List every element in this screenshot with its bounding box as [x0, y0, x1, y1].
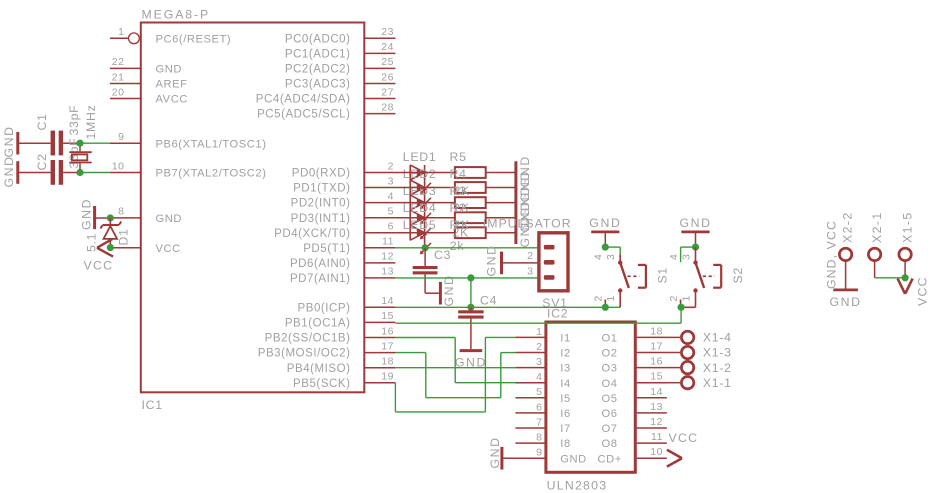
IC1 pin 2 PD0(RXD) (right)	[292, 160, 396, 179]
svg-text:10: 10	[650, 446, 663, 458]
svg-text:2K: 2K	[454, 201, 471, 215]
IC1 pin 15 PB1(OC1A) (right)	[285, 310, 396, 329]
svg-text:GND: GND	[2, 125, 16, 157]
svg-text:6: 6	[388, 221, 394, 233]
VCC label (left)	[84, 259, 114, 273]
svg-text:PB2(SS/OC1B): PB2(SS/OC1B)	[265, 333, 351, 345]
label C4	[480, 294, 497, 308]
supply VCC arrow (left)	[97, 239, 113, 257]
pad X1-5	[899, 248, 911, 279]
IC1 pin 4 PD2(INT0) (right)	[291, 190, 396, 209]
svg-text:VCC: VCC	[84, 259, 114, 273]
SV1 pin contact at 278.0	[544, 275, 555, 280]
svg-text:19: 19	[381, 371, 394, 383]
IC1 pin 5 PD3(INT1) (right)	[291, 206, 396, 225]
svg-text:ULN2803: ULN2803	[547, 479, 608, 493]
svg-text:17: 17	[650, 341, 663, 353]
svg-text:VCC: VCC	[916, 276, 930, 306]
IC2 pin 6 I6 (left)	[515, 401, 570, 420]
IC1 pin 27 PC4(ADC4/SDA) (right)	[256, 86, 396, 105]
svg-text:X2-1: X2-1	[870, 211, 884, 243]
resistor R3	[395, 197, 516, 208]
GND label (R2)	[518, 200, 532, 232]
svg-text:PD0(RXD): PD0(RXD)	[292, 168, 351, 180]
node S2 bottom junction	[678, 304, 685, 311]
svg-text:X1-3: X1-3	[703, 346, 732, 360]
svg-text:4: 4	[388, 190, 394, 202]
svg-text:GND: GND	[2, 155, 16, 187]
svg-text:5.1: 5.1	[85, 233, 99, 252]
IC1 pin 20 AVCC (left)	[110, 86, 188, 105]
svg-text:9: 9	[118, 131, 124, 143]
wire PB4 to I3	[395, 367, 515, 369]
svg-text:18: 18	[650, 325, 663, 337]
svg-text:20: 20	[112, 86, 125, 98]
svg-text:PB4(MISO): PB4(MISO)	[287, 363, 351, 375]
pad X1-4	[667, 331, 694, 343]
svg-text:O1: O1	[602, 333, 618, 345]
IC1 pin 23 PC0(ADC0) (right)	[285, 26, 396, 45]
svg-text:PD1(TXD): PD1(TXD)	[293, 183, 350, 195]
svg-text:GND: GND	[830, 295, 862, 309]
svg-text:X1-2: X1-2	[703, 361, 732, 375]
pad X1-2	[667, 361, 694, 373]
svg-text:2: 2	[536, 341, 542, 353]
diode D1 zener	[100, 218, 121, 248]
label X1-3	[703, 346, 732, 360]
svg-text:7: 7	[536, 416, 542, 428]
IC2 pin 2 I2 (left)	[515, 341, 570, 360]
wire PD7 net to SV1 pin3	[395, 277, 537, 279]
pad X2-1	[868, 248, 880, 278]
label C1	[35, 113, 49, 130]
label C2	[35, 153, 49, 170]
svg-text:R5: R5	[450, 150, 467, 164]
crystal Q1	[69, 143, 91, 172]
svg-text:GND: GND	[589, 216, 621, 230]
GND label (C2)	[2, 155, 16, 187]
LED LED2	[410, 180, 431, 209]
ground bar (R1-R5)	[514, 161, 517, 244]
GND label (SV1 pin2)	[485, 244, 499, 276]
svg-text:2K: 2K	[453, 226, 470, 240]
svg-text:13: 13	[381, 266, 394, 278]
svg-text:O7: O7	[602, 423, 618, 435]
svg-text:AVCC: AVCC	[156, 94, 188, 106]
S1 pin number 2	[593, 295, 605, 302]
label LED2	[403, 167, 437, 181]
LED LED5	[410, 225, 431, 254]
svg-text:X1-1: X1-1	[703, 376, 732, 390]
GND label (S1)	[589, 216, 621, 230]
svg-text:28: 28	[381, 101, 394, 113]
svg-text:14: 14	[650, 386, 663, 398]
value 33pF (C1)	[67, 105, 81, 136]
GND label (S2)	[680, 216, 712, 230]
SV1 pin contact at 247.8	[544, 245, 555, 250]
svg-text:IC1: IC1	[142, 398, 163, 412]
IC1 pin 11 PD5(T1) (right)	[303, 236, 395, 255]
wire PD5 net to SV1 pin1	[395, 247, 537, 249]
svg-text:PD5(T1): PD5(T1)	[303, 243, 350, 255]
ground (C3)	[425, 282, 440, 305]
resistor R4	[395, 182, 516, 193]
IC2 title ULN2803	[547, 479, 608, 493]
S2 pin number 1	[680, 295, 692, 302]
svg-text:GND: GND	[442, 274, 456, 306]
svg-text:O2: O2	[602, 348, 618, 360]
IC IC2 ULN2803 body	[546, 322, 635, 472]
svg-text:3: 3	[388, 175, 394, 187]
S1 pin number 3	[605, 253, 617, 260]
node S1 bottom junction	[602, 304, 609, 311]
LED LED1	[410, 165, 431, 194]
svg-text:17: 17	[381, 340, 394, 352]
value 5.1 (D1)	[85, 233, 99, 252]
svg-text:24: 24	[381, 41, 394, 53]
IC1 pin 16 PB2(SS/OC1B) (right)	[265, 325, 396, 344]
svg-text:PD3(INT1): PD3(INT1)	[291, 213, 351, 225]
svg-text:27: 27	[381, 86, 394, 98]
svg-text:X1-5: X1-5	[901, 211, 915, 243]
wire SV1 pin2 GND	[502, 262, 538, 264]
svg-text:PD6(AIN0): PD6(AIN0)	[290, 258, 351, 270]
IC2 pin 16 O3 (right)	[602, 356, 667, 375]
svg-text:3: 3	[605, 253, 617, 260]
pad X1-1	[667, 377, 694, 389]
svg-text:2K: 2K	[454, 184, 471, 198]
wire PB3 to I2	[395, 353, 515, 398]
GND label (R5)	[518, 155, 532, 187]
svg-text:13: 13	[650, 401, 663, 413]
svg-text:3: 3	[680, 253, 692, 260]
label X2-1	[870, 211, 884, 243]
IC2 pin 15 O4 (right)	[602, 371, 667, 390]
label S1	[656, 267, 670, 283]
ground (C1)	[18, 132, 51, 155]
node PD7/SV1 junction	[467, 274, 474, 281]
resistor R2	[395, 212, 516, 223]
IC2 pin 8 I8 (left)	[515, 432, 570, 451]
label C3	[434, 248, 451, 262]
IC2 pin 13 O6 (right)	[602, 401, 667, 420]
svg-text:PC5(ADC5/SCL): PC5(ADC5/SCL)	[257, 109, 350, 121]
switch S1	[605, 255, 646, 308]
svg-text:GND: GND	[156, 213, 183, 225]
GND label (pin8)	[80, 198, 94, 230]
node S2 top junction	[692, 244, 699, 251]
GND label (C4)	[455, 356, 487, 370]
IC2 pin 10 CD+ (right)	[598, 446, 667, 465]
svg-text:16: 16	[381, 325, 394, 337]
label R1	[450, 218, 471, 232]
svg-text:12: 12	[381, 251, 394, 263]
svg-text:18: 18	[381, 356, 394, 368]
IC1 pin 28 PC5(ADC5/SCL) (right)	[257, 101, 395, 120]
IC1 pin 7 VCC (left)	[110, 243, 180, 255]
svg-text:AREF: AREF	[156, 79, 188, 91]
svg-text:15: 15	[381, 310, 394, 322]
svg-text:PC3(ADC3): PC3(ADC3)	[285, 79, 351, 91]
ground (X2-2)	[833, 288, 858, 291]
connector SV1 body	[539, 233, 568, 291]
VCC label (IC2 pin 11)	[669, 431, 699, 445]
svg-text:C4: C4	[480, 294, 497, 308]
svg-text:LED3: LED3	[403, 184, 437, 198]
svg-text:3: 3	[527, 265, 533, 277]
IC1 pin 8 GND (left)	[110, 206, 182, 225]
GND label (R1)	[518, 215, 532, 247]
svg-text:4: 4	[593, 253, 605, 260]
svg-text:VCC: VCC	[156, 243, 181, 255]
svg-text:GND: GND	[488, 436, 502, 468]
svg-text:1: 1	[680, 295, 692, 302]
svg-text:5: 5	[536, 386, 542, 398]
ground (C2)	[18, 161, 51, 184]
IC1 pin 3 PD1(TXD) (right)	[293, 175, 395, 194]
SV1 pin contact at 262.9	[544, 260, 555, 265]
IC1 designator label IC1	[142, 398, 163, 412]
GND label (IC2 pin9)	[488, 436, 502, 468]
svg-text:3: 3	[536, 356, 542, 368]
svg-text:2: 2	[527, 250, 533, 262]
LED LED3	[410, 195, 431, 224]
svg-text:O4: O4	[602, 378, 618, 390]
value 1MHz (Q1)	[84, 105, 98, 140]
wire XTAL2 net	[80, 172, 110, 174]
svg-text:PB1(OC1A): PB1(OC1A)	[285, 318, 351, 330]
svg-text:R4: R4	[450, 167, 467, 181]
svg-text:CD+: CD+	[598, 453, 622, 465]
svg-text:8: 8	[536, 432, 542, 444]
svg-text:8: 8	[118, 206, 124, 218]
IC IC1 MEGA8-P body	[141, 23, 364, 393]
svg-text:O5: O5	[602, 393, 618, 405]
svg-text:5: 5	[388, 206, 394, 218]
node C4 junction	[467, 304, 474, 311]
svg-text:4: 4	[536, 371, 542, 383]
IC2 pin 18 O1 (right)	[602, 325, 667, 344]
label IC2	[547, 307, 568, 321]
svg-text:GND: GND	[80, 198, 94, 230]
svg-text:22: 22	[112, 56, 125, 68]
S2 pin number 4	[668, 253, 680, 260]
IC1 pin 6 PD4(XCK/T0) (right)	[274, 221, 395, 240]
node VCC junction (X1-5)	[902, 274, 909, 281]
svg-text:GND: GND	[680, 216, 712, 230]
svg-text:O8: O8	[602, 438, 618, 450]
VCC label (X1-5)	[916, 276, 930, 306]
wire PB5 to I1	[395, 337, 515, 412]
capacitor C2	[51, 160, 80, 185]
capacitor C4	[458, 307, 483, 349]
node XTAL2 junction	[76, 169, 83, 176]
IC2 pin 12 O7 (right)	[602, 416, 667, 435]
svg-text:11: 11	[382, 236, 394, 248]
S1 pin number 4	[593, 253, 605, 260]
svg-text:I2: I2	[560, 348, 570, 360]
svg-text:C2: C2	[35, 153, 49, 170]
svg-text:I6: I6	[560, 408, 570, 420]
svg-text:I8: I8	[560, 438, 570, 450]
IC1 pin 18 PB4(MISO) (right)	[287, 356, 396, 375]
svg-text:PB5(SCK): PB5(SCK)	[293, 378, 350, 390]
IC1 pin 12 PD6(AIN0) (right)	[290, 251, 395, 270]
svg-text:1: 1	[118, 26, 124, 38]
GND label (R4)	[518, 170, 532, 202]
capacitor C1	[51, 131, 80, 156]
ground (IC2 pin9)	[502, 447, 516, 470]
IC1 pin 1 PC6(/RESET) (left)	[110, 26, 231, 45]
svg-text:I5: I5	[560, 393, 570, 405]
IC1 pin 24 PC1(ADC1) (right)	[285, 41, 396, 60]
svg-text:11: 11	[651, 431, 663, 443]
S1 pin number 1	[605, 295, 617, 302]
svg-text:X1-4: X1-4	[703, 331, 732, 345]
svg-text:GND: GND	[156, 64, 183, 76]
svg-text:I7: I7	[560, 423, 570, 435]
svg-text:S1: S1	[656, 267, 670, 283]
IC1 pin 9 PB6(XTAL1/TOSC1) (left)	[110, 131, 267, 150]
svg-text:PD7(AIN1): PD7(AIN1)	[290, 273, 351, 285]
svg-text:PC2(ADC2): PC2(ADC2)	[285, 64, 351, 76]
svg-text:15: 15	[650, 371, 663, 383]
wire S2 pin4 link	[681, 247, 696, 262]
svg-text:GND, VCC: GND, VCC	[825, 220, 839, 289]
wire PB1 net (to S2 and under IC2)	[395, 307, 681, 323]
svg-text:2k: 2k	[450, 239, 465, 253]
svg-text:1: 1	[536, 326, 542, 338]
svg-text:O6: O6	[602, 408, 618, 420]
node S1 top junction	[602, 244, 609, 251]
svg-text:I3: I3	[560, 363, 570, 375]
svg-text:14: 14	[381, 295, 394, 307]
SV1 pin number 3	[527, 265, 533, 277]
svg-text:33pF: 33pF	[67, 105, 81, 136]
svg-text:O3: O3	[602, 363, 618, 375]
svg-text:PC4(ADC4/SDA): PC4(ADC4/SDA)	[256, 94, 351, 106]
svg-text:1: 1	[605, 295, 617, 302]
S2 pin number 2	[668, 295, 680, 302]
IC1 pin 26 PC3(ADC3) (right)	[285, 71, 396, 90]
IC2 pin 17 O2 (right)	[602, 341, 667, 360]
svg-text:IC2: IC2	[547, 307, 568, 321]
S2 pin number 3	[680, 253, 692, 260]
wire XTAL1 net	[80, 142, 110, 144]
GND label (R3)	[518, 185, 532, 217]
value 2K	[453, 226, 470, 240]
svg-text:LED1: LED1	[403, 150, 437, 164]
IC2 pin 9 GND (left)	[515, 447, 586, 466]
svg-text:LED5: LED5	[403, 218, 437, 232]
label LED5	[403, 218, 437, 232]
svg-text:16: 16	[650, 356, 663, 368]
svg-text:GND: GND	[485, 244, 499, 276]
LED LED4	[410, 210, 431, 239]
ground (pin8)	[95, 206, 111, 229]
svg-text:9: 9	[536, 447, 542, 459]
svg-text:PD2(INT0): PD2(INT0)	[291, 198, 351, 210]
pad X2-2	[839, 248, 851, 289]
supply VCC arrow (X1-5)	[898, 279, 913, 294]
resistor R1	[395, 227, 516, 238]
IC2 pin 7 I7 (left)	[515, 416, 570, 435]
capacitor C3	[413, 248, 438, 293]
label R3	[450, 184, 471, 198]
IC1 pin 22 GND (left)	[110, 56, 182, 75]
svg-text:PB6(XTAL1/TOSC1): PB6(XTAL1/TOSC1)	[156, 138, 267, 150]
svg-text:21: 21	[112, 71, 125, 83]
label GND, VCC	[825, 220, 839, 289]
svg-text:1MHz: 1MHz	[84, 105, 98, 140]
switch S2	[681, 247, 722, 307]
GND label (C3)	[442, 274, 456, 306]
ground (C4)	[460, 349, 483, 352]
wire PB2 to I4	[395, 338, 515, 383]
svg-text:PD4(XCK/T0): PD4(XCK/T0)	[274, 228, 350, 240]
svg-text:VCC: VCC	[669, 431, 699, 445]
IC1 title MEGA8-P	[142, 8, 211, 22]
svg-text:25: 25	[381, 56, 394, 68]
label R5	[450, 150, 467, 164]
IC1 pin 21 AREF (left)	[110, 71, 188, 90]
svg-text:I1: I1	[560, 333, 570, 345]
pad X1-3	[667, 346, 694, 358]
IC2 pin 4 I4 (left)	[515, 371, 570, 390]
svg-text:2: 2	[388, 160, 394, 172]
svg-text:2: 2	[668, 295, 680, 302]
svg-text:PC0(ADC0): PC0(ADC0)	[285, 33, 351, 45]
label R2	[450, 201, 471, 215]
IC2 pin 5 I5 (left)	[515, 386, 570, 405]
svg-text:PB0(ICP): PB0(ICP)	[298, 302, 351, 314]
label IMPULSATOR	[483, 217, 572, 231]
svg-text:IMPULSATOR: IMPULSATOR	[483, 217, 572, 231]
value 33pF (C2)	[67, 138, 81, 169]
wire X2-1 to VCC	[875, 277, 906, 279]
svg-text:C3: C3	[434, 248, 451, 262]
IC1 pin 13 PD7(AIN1) (right)	[290, 266, 395, 285]
IC2 pin 11 O8 (right)	[602, 431, 667, 450]
label X1-4	[703, 331, 732, 345]
label X1-1	[703, 376, 732, 390]
wire PB0 net to S1	[395, 306, 620, 308]
svg-text:10: 10	[112, 160, 125, 172]
IC2 pin 1 I1 (left)	[515, 326, 570, 345]
IC2 pin 14 O5 (right)	[602, 386, 667, 405]
label D1	[117, 228, 131, 245]
svg-text:D1: D1	[117, 228, 131, 245]
svg-text:12: 12	[650, 416, 663, 428]
wire junction riser	[470, 278, 472, 307]
label R4	[450, 167, 467, 181]
svg-text:PB7(XTAL2/TOSC2): PB7(XTAL2/TOSC2)	[156, 168, 267, 180]
value 2k	[450, 239, 465, 253]
IC1 pin 14 PB0(ICP) (right)	[298, 295, 396, 314]
svg-text:23: 23	[381, 26, 394, 38]
label LED1	[403, 150, 437, 164]
label X1-5	[901, 211, 915, 243]
label S2	[731, 267, 745, 283]
svg-text:X2-2: X2-2	[841, 211, 855, 243]
IC2 pin 3 I3 (left)	[515, 356, 570, 375]
IC1 pin 17 PB3(MOSI/OC2) (right)	[258, 340, 396, 359]
IC1 pin 19 PB5(SCK) (right)	[293, 371, 395, 390]
svg-text:6: 6	[536, 401, 542, 413]
svg-text:I4: I4	[560, 378, 570, 390]
IC1 pin 10 PB7(XTAL2/TOSC2) (left)	[110, 160, 267, 179]
GND label (C1)	[2, 125, 16, 157]
